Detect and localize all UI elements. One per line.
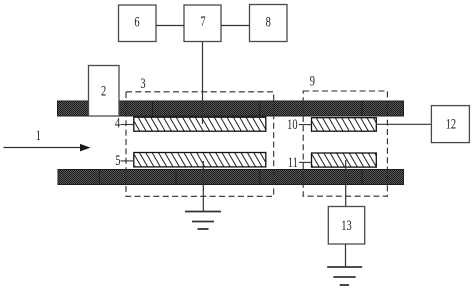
svg-text:10: 10 bbox=[287, 116, 297, 132]
electrode 4 (upper left hatched bar) bbox=[134, 117, 266, 131]
box 7 bbox=[184, 5, 221, 42]
label 5 with tick bbox=[115, 153, 134, 169]
svg-text:1: 1 bbox=[36, 127, 41, 143]
box 2 bbox=[89, 66, 120, 117]
label 11 with tick bbox=[288, 154, 312, 170]
bottom electrode plate (lower dark bar) bbox=[58, 170, 404, 185]
wire from electrode 5 down to ground bbox=[202, 161, 204, 212]
svg-text:3: 3 bbox=[140, 75, 145, 91]
label 4 with tick bbox=[115, 115, 134, 131]
electrode 10 (upper right hatched bar) bbox=[312, 118, 377, 132]
wire from electrode 11 down to box 13 bbox=[345, 160, 347, 207]
dashed region 9 bbox=[303, 73, 387, 197]
svg-text:2: 2 bbox=[101, 83, 106, 99]
ground (right, below box 13) bbox=[327, 267, 362, 285]
top electrode plate (upper dark bar) bbox=[58, 101, 404, 116]
svg-text:4: 4 bbox=[115, 115, 121, 131]
electrode 11 (lower right hatched bar) bbox=[312, 153, 377, 167]
svg-text:8: 8 bbox=[266, 14, 271, 30]
box 8 bbox=[250, 5, 288, 42]
svg-text:5: 5 bbox=[115, 153, 120, 169]
electrode 5 (lower left hatched bar) bbox=[134, 153, 266, 167]
svg-text:6: 6 bbox=[134, 14, 139, 30]
label 10 with tick bbox=[287, 116, 311, 132]
arrow 1 (gas flow) bbox=[4, 127, 91, 151]
ground (center) bbox=[185, 212, 221, 230]
box 6 bbox=[119, 5, 157, 42]
wire box7-box8 bbox=[221, 25, 250, 27]
svg-text:9: 9 bbox=[310, 73, 315, 89]
svg-text:7: 7 bbox=[200, 14, 205, 30]
dashed region 3 bbox=[126, 75, 274, 196]
box 12 bbox=[431, 106, 469, 143]
box 13 bbox=[328, 207, 364, 245]
svg-text:13: 13 bbox=[341, 217, 351, 233]
wire electrode10-box12 bbox=[376, 123, 431, 125]
wire box13-ground bbox=[345, 244, 347, 267]
wire from box 7 down to electrode 4 bbox=[202, 42, 204, 124]
svg-text:12: 12 bbox=[446, 116, 456, 132]
wire box6-box7 bbox=[156, 25, 184, 27]
svg-text:11: 11 bbox=[288, 154, 298, 170]
